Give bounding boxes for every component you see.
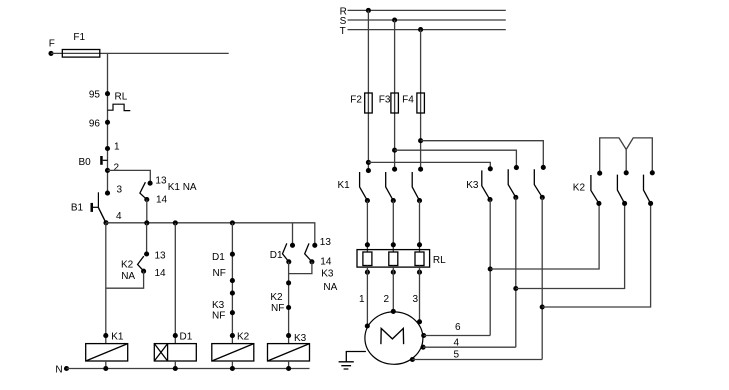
junction bus-K1NA <box>144 220 149 225</box>
svg-text:B1: B1 <box>71 202 84 213</box>
junction R branch <box>366 160 371 165</box>
wire tap3 to K2 pole3 <box>542 203 650 307</box>
svg-text:RL: RL <box>433 255 446 266</box>
junction RL in 3 <box>417 242 422 247</box>
svg-text:F3: F3 <box>379 95 391 106</box>
phase T line <box>340 26 506 37</box>
svg-text:6: 6 <box>455 322 461 333</box>
wire D1 coil to N <box>174 361 176 369</box>
svg-text:K1: K1 <box>338 180 351 191</box>
contactor K3 pole 3 <box>534 165 546 200</box>
wire K3NA join <box>289 262 312 274</box>
svg-text:F2: F2 <box>350 95 362 106</box>
motor M <box>365 312 423 364</box>
node 95 <box>89 89 110 100</box>
wire motor5 run <box>412 359 542 361</box>
wire K3 coil branch <box>288 262 290 344</box>
junction N-K2 <box>230 366 235 371</box>
junction RL out 3 <box>413 270 423 305</box>
wire R branch to K3 group <box>368 162 490 168</box>
node 3 <box>105 185 123 196</box>
svg-text:F: F <box>49 39 55 50</box>
ground <box>339 352 366 370</box>
wire bus to D1NA <box>292 223 294 245</box>
wire K3 pole1 down <box>489 200 491 336</box>
contactor K2 pole 2 <box>617 170 628 206</box>
node F <box>48 39 54 56</box>
motor terminal 1 <box>365 323 370 328</box>
wire D1 coil branch <box>174 223 176 344</box>
svg-text:F4: F4 <box>402 94 414 105</box>
node 2 <box>105 163 120 174</box>
contact K3 NA <box>305 237 338 293</box>
star bridge <box>600 138 653 173</box>
svg-text:14: 14 <box>155 268 167 279</box>
svg-text:RL: RL <box>115 92 128 103</box>
svg-text:3: 3 <box>117 185 123 196</box>
svg-text:F1: F1 <box>73 32 85 43</box>
svg-text:K2: K2 <box>573 183 586 194</box>
contactor K2 pole 3 <box>644 170 655 206</box>
contact D1 NF <box>212 252 235 284</box>
svg-text:1: 1 <box>114 142 120 153</box>
junction T branch <box>418 138 423 143</box>
svg-text:3: 3 <box>413 294 419 305</box>
wire K2 coil branch <box>231 223 233 344</box>
svg-text:T: T <box>340 26 346 37</box>
svg-text:K3: K3 <box>466 180 479 191</box>
junction RL out 2 <box>384 270 396 305</box>
motor terminal 2 <box>391 309 396 314</box>
junction RL in 1 <box>365 242 370 247</box>
svg-text:B0: B0 <box>79 157 92 168</box>
node 96 <box>89 119 110 130</box>
timer coil D1 <box>154 344 196 361</box>
svg-text:K2: K2 <box>270 292 283 303</box>
coil K1 <box>86 344 128 361</box>
svg-text:1: 1 <box>359 294 365 305</box>
junction N-K3 <box>286 366 291 371</box>
motor terminal 3 <box>417 319 422 324</box>
contactor K1 pole 1 <box>338 168 371 203</box>
node 4 <box>103 211 122 225</box>
junction RL in 2 <box>391 242 396 247</box>
motor terminal 5 <box>410 350 460 362</box>
junction S tap <box>392 17 397 22</box>
wire R phase drop <box>367 10 369 170</box>
junction delta tap 3 <box>540 304 545 309</box>
wire RL to motor U <box>366 266 368 327</box>
wire K1 pole1 to RL <box>366 201 368 252</box>
svg-text:K2: K2 <box>237 332 250 343</box>
node 1 <box>105 142 120 153</box>
svg-text:NA: NA <box>121 271 135 282</box>
svg-text:K2: K2 <box>121 259 134 270</box>
node K3 coil top <box>286 333 307 344</box>
junction T tap <box>418 27 423 32</box>
wire node2 to K1 contact <box>108 170 151 183</box>
svg-text:D1: D1 <box>270 250 283 261</box>
wire neutral bus N <box>67 368 310 370</box>
pushbutton B0 <box>79 156 108 168</box>
contact K1 NA <box>140 175 197 205</box>
junction RL out 1 <box>359 270 370 305</box>
junction delta tap 1 <box>488 266 493 271</box>
pushbutton B1 <box>71 192 106 222</box>
svg-text:NA: NA <box>323 282 337 293</box>
wire S phase drop <box>394 20 396 169</box>
coil K2 <box>212 344 254 361</box>
wire K1 coil to N <box>105 361 107 369</box>
svg-text:D1: D1 <box>180 332 193 343</box>
svg-text:K3: K3 <box>294 333 307 344</box>
contactor K2 pole 1 <box>573 171 602 206</box>
contactor K1 pole 3 <box>412 167 423 204</box>
wire T branch to K3 group <box>421 141 544 168</box>
wire K3 coil to N <box>288 361 290 369</box>
svg-text:13: 13 <box>155 175 167 186</box>
junction R tap <box>366 8 371 13</box>
svg-text:14: 14 <box>320 256 332 267</box>
contact K2 NF <box>270 280 291 313</box>
svg-text:NF: NF <box>212 310 225 321</box>
contact K2 NA <box>121 251 166 282</box>
wire K1 pole2 to RL <box>392 201 394 252</box>
svg-text:NF: NF <box>213 268 226 279</box>
fuse F3 <box>379 93 399 113</box>
svg-text:NF: NF <box>271 303 284 314</box>
svg-text:2: 2 <box>384 294 390 305</box>
junction S branch <box>392 148 397 153</box>
svg-text:2: 2 <box>114 163 120 174</box>
svg-text:4: 4 <box>116 211 122 222</box>
svg-text:14: 14 <box>156 195 168 206</box>
junction bus-K2coil <box>230 220 235 225</box>
junction N-K1 <box>103 366 108 371</box>
wire bus to K2NA <box>146 223 148 254</box>
wire tap2 to K2 pole2 <box>516 203 625 288</box>
wire K1NA to bus <box>146 200 148 223</box>
junction N-D1 <box>173 366 178 371</box>
wire K2 coil to N <box>231 361 233 369</box>
svg-text:13: 13 <box>155 251 167 262</box>
node K2 coil top <box>230 332 250 343</box>
node N <box>55 365 69 376</box>
svg-text:K3: K3 <box>321 268 334 279</box>
coil K3 <box>268 344 310 361</box>
junction bus-D1coil <box>173 220 178 225</box>
fuse F4 <box>402 93 424 113</box>
wire K1 pole3 to RL <box>419 201 421 252</box>
fuse F2 <box>350 93 372 113</box>
svg-text:K1: K1 <box>111 331 124 342</box>
wire motor4 run <box>423 346 516 348</box>
contactor K3 pole 1 <box>466 166 493 202</box>
wire motor6 run <box>424 335 491 337</box>
node K1 coil top <box>103 331 124 342</box>
wire K3 pole3 down <box>541 197 543 359</box>
overload relay RL block <box>357 250 446 268</box>
svg-text:96: 96 <box>89 119 101 130</box>
fuse F1 <box>62 32 100 57</box>
overload relay contact RL <box>108 92 131 111</box>
motor terminal 4 <box>421 337 460 349</box>
wire bus 4 <box>106 223 315 246</box>
junction delta tap 2 <box>513 286 518 291</box>
node D1 coil top <box>173 332 193 343</box>
contact D1 NA <box>270 243 295 265</box>
phase S line <box>340 16 506 27</box>
wire K1 coil branch <box>105 223 107 344</box>
contact K3 NF <box>212 291 235 322</box>
phase R line <box>340 6 506 17</box>
wire K2NA to K1 branch <box>106 271 144 288</box>
svg-text:95: 95 <box>89 89 101 100</box>
svg-text:D1: D1 <box>212 252 225 263</box>
wire K3 pole2 down <box>515 197 517 347</box>
wire control phase line <box>51 52 229 54</box>
wire S branch to K3 group <box>395 150 517 167</box>
wire tap1 to K2 pole1 <box>490 203 599 269</box>
contactor K1 pole 2 <box>386 167 397 204</box>
wire RL to motor V <box>392 266 394 312</box>
wire RL to motor W <box>419 266 421 322</box>
motor terminal 6 <box>421 322 461 338</box>
svg-text:K1 NA: K1 NA <box>168 182 197 193</box>
contactor K3 pole 2 <box>508 165 519 200</box>
svg-text:13: 13 <box>320 237 332 248</box>
wire control trunk <box>107 53 109 193</box>
wire T phase drop <box>420 30 422 170</box>
svg-text:N: N <box>55 365 62 376</box>
